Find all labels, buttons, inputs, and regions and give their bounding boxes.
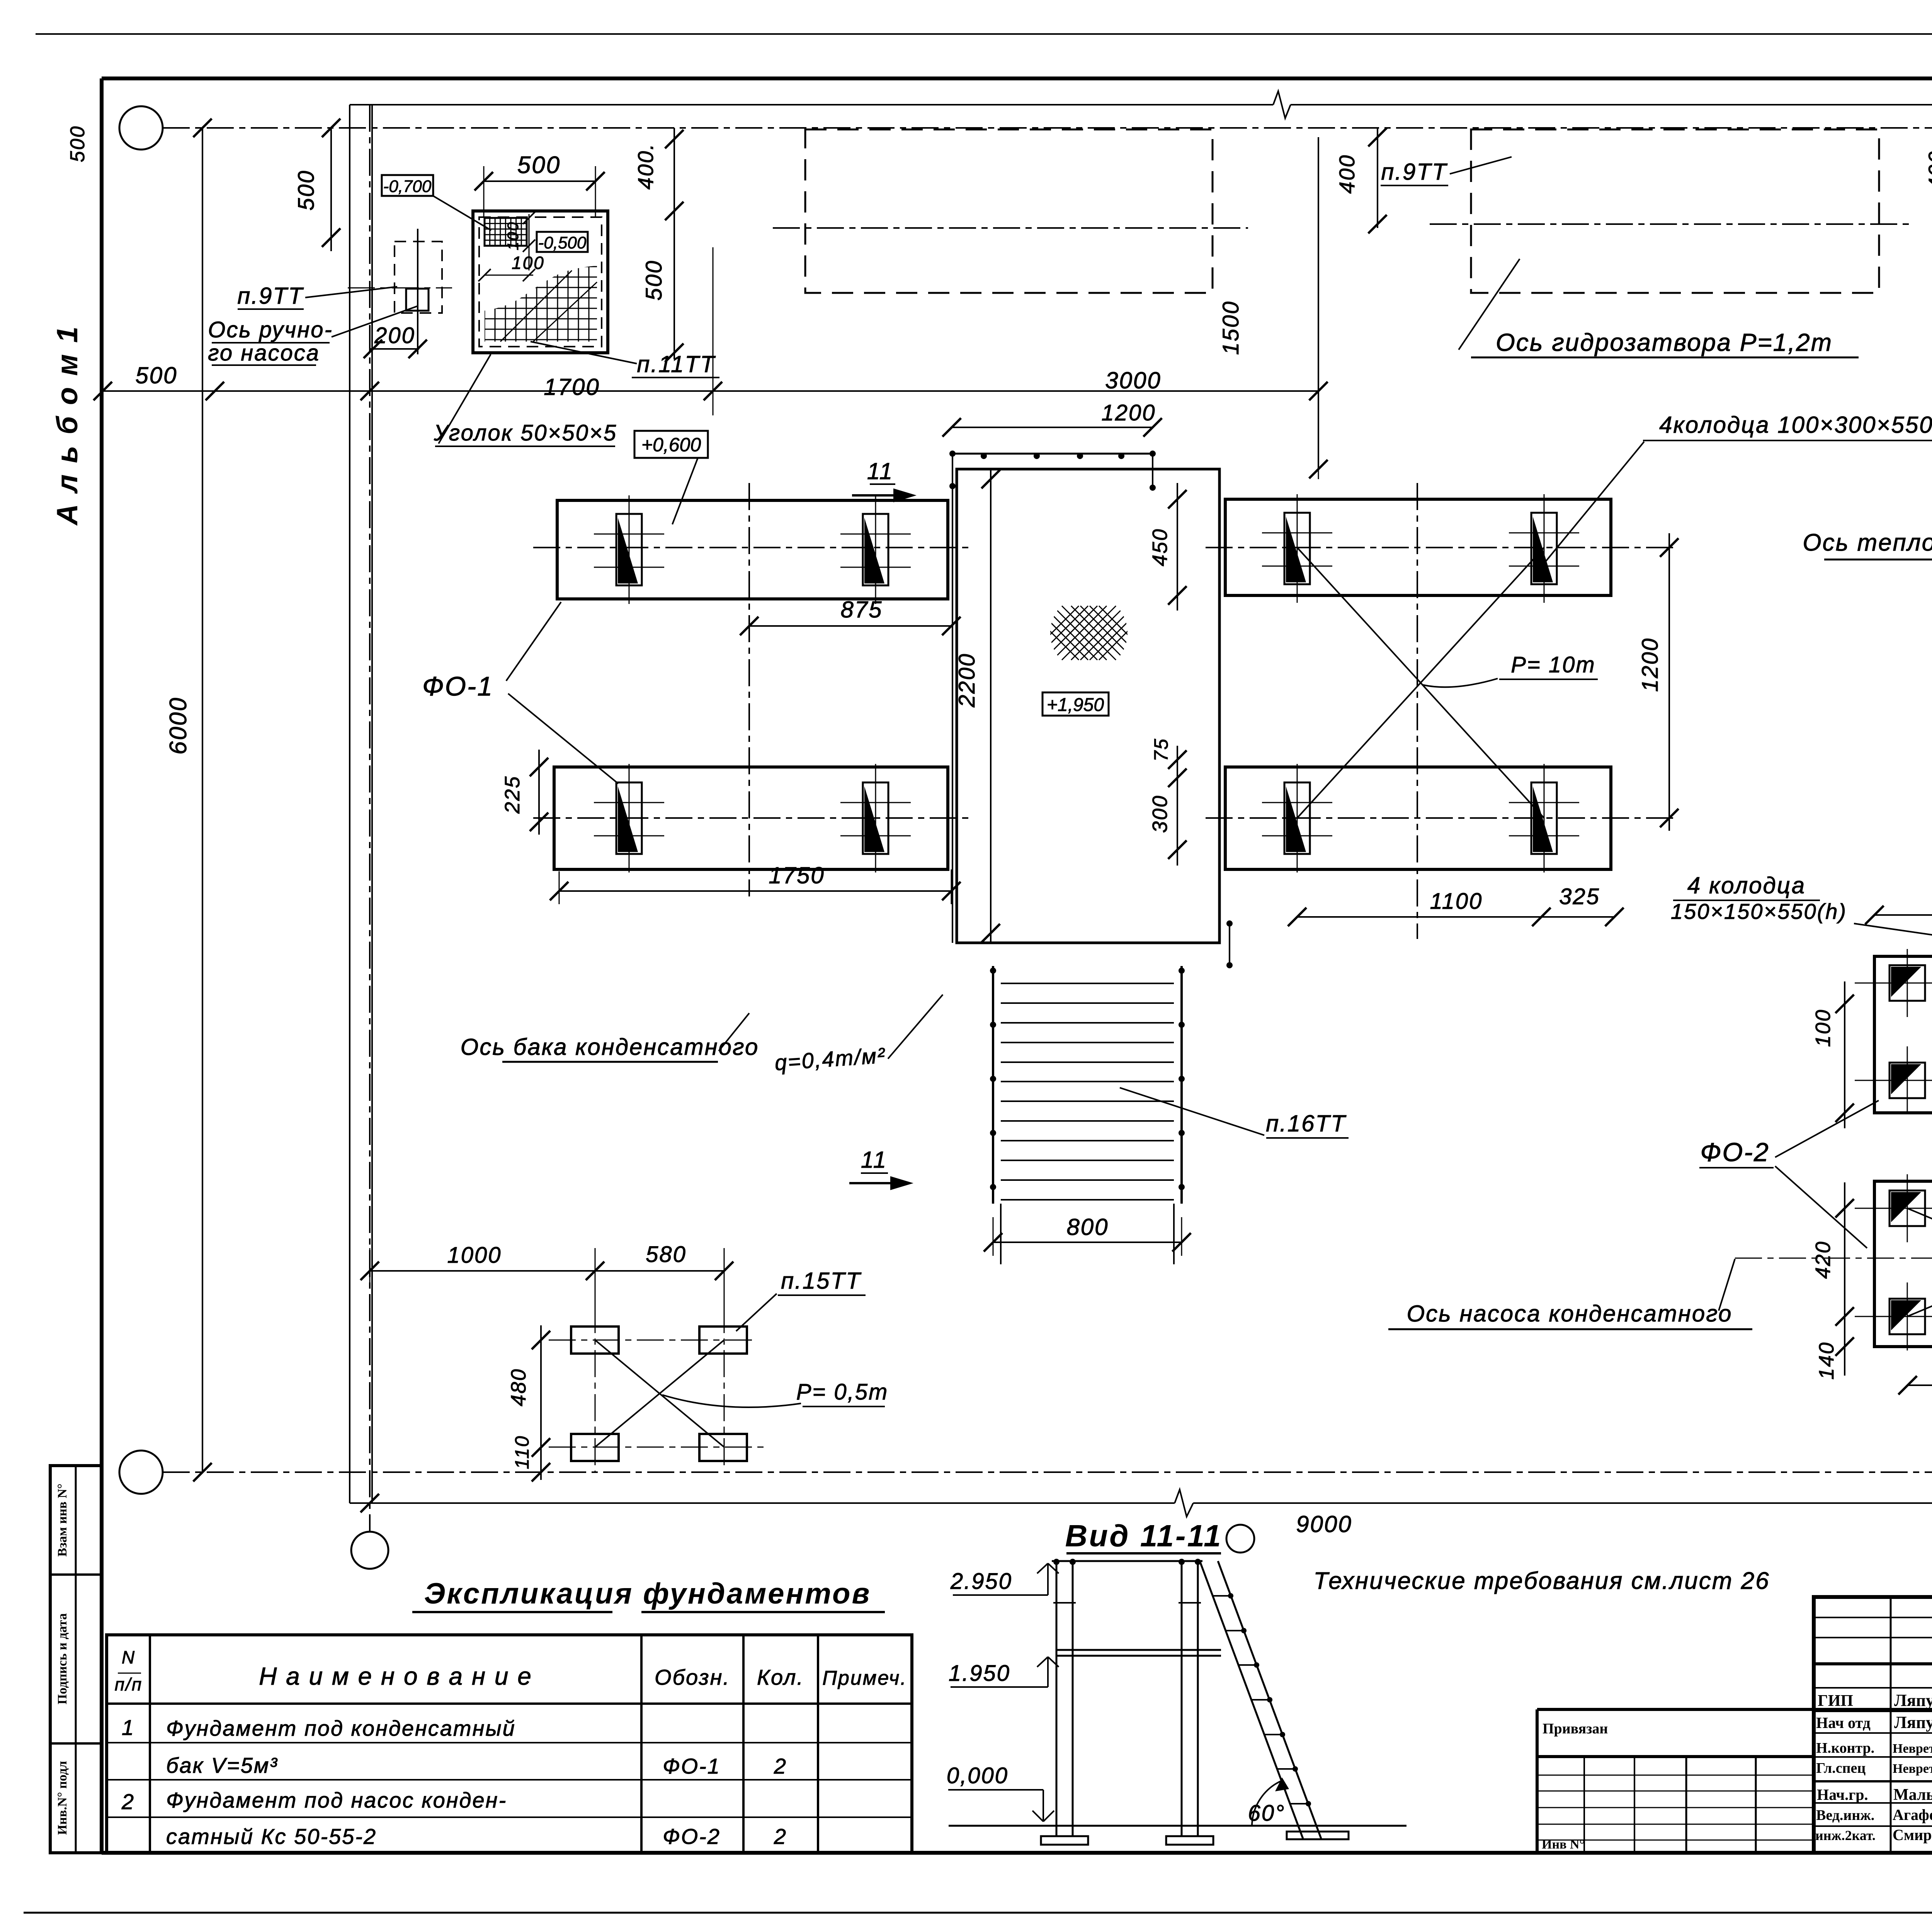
small pad BL (571, 1434, 619, 1461)
svg-text:0,000: 0,000 (947, 1763, 1009, 1788)
outer trim border top line (36, 33, 1932, 35)
svg-text:480: 480 (507, 1368, 530, 1406)
main frame bottom edge (102, 1851, 1932, 1855)
pad 6 (1531, 513, 1557, 584)
svg-text:Кол.: Кол. (757, 1665, 804, 1689)
small pad TL (571, 1327, 619, 1354)
elevation ladder base plate (1287, 1832, 1349, 1839)
elevation platform (1056, 1649, 1221, 1651)
dimension 2200 (990, 469, 992, 943)
dimension 1750 (559, 890, 951, 892)
title block horizontal main (1537, 1708, 1932, 1711)
leader P=10m (1422, 679, 1498, 687)
dimension 6000 (202, 128, 203, 1472)
svg-text:225: 225 (501, 775, 524, 814)
leader п.11ТТ (531, 342, 637, 364)
svg-text:Технические требования см.ли: Технические требования см.лист 26 (1313, 1568, 1770, 1594)
svg-text:500: 500 (641, 260, 667, 301)
leader +0.600 (672, 458, 698, 524)
elevation post ties (1053, 1602, 1076, 1604)
pad 3 (616, 782, 642, 854)
svg-text:Ось ручно-: Ось ручно- (208, 317, 333, 342)
strip axis lower (533, 817, 974, 819)
small cross (595, 1340, 724, 1447)
svg-text:Ляпусов: Ляпусов (1894, 1713, 1932, 1732)
label -0.700 box (382, 175, 433, 196)
foundation FO-2 lower rect (1874, 1181, 1932, 1347)
svg-text:4колодца 100×300×550(h): 4колодца 100×300×550(h) (1659, 412, 1932, 438)
label -0.500 box (537, 232, 588, 252)
strip axis lr (1206, 817, 1673, 819)
dimension 1160-135 (1908, 1384, 1932, 1386)
detail grid square hatched (485, 218, 527, 246)
svg-text:Инв.N° подл: Инв.N° подл (55, 1761, 70, 1835)
svg-text:Р= 10m: Р= 10m (1511, 652, 1596, 677)
svg-text:140: 140 (1815, 1341, 1838, 1379)
elevation right post (1181, 1561, 1183, 1836)
svg-text:4 колодца: 4 колодца (1687, 872, 1806, 898)
svg-text:Примеч.: Примеч. (822, 1667, 907, 1689)
svg-text:1.950: 1.950 (949, 1661, 1010, 1686)
elevation left base plate (1041, 1836, 1088, 1845)
leader Ось бака (719, 1013, 749, 1051)
dimension chain line y1012 (103, 390, 1318, 392)
extension line for chain at x3412 (1318, 367, 1319, 479)
leader P=0.5m (662, 1395, 801, 1407)
svg-text:Н.контр.: Н.контр. (1816, 1740, 1874, 1756)
svg-text:N: N (122, 1647, 136, 1667)
svg-text:Вид 11-11: Вид 11-11 (1065, 1519, 1222, 1553)
svg-text:Ось теплообменника Р=1,7т: Ось теплообменника Р=1,7т (1803, 529, 1932, 556)
equipment dashed rect 2 (1471, 129, 1879, 293)
cross diagonal 1 (1297, 548, 1544, 818)
axis line horizontal top (163, 127, 1932, 129)
svg-text:п.11ТТ: п.11ТТ (637, 351, 716, 377)
svg-text:сатный Кс 50-55-2: сатный Кс 50-55-2 (166, 1824, 377, 1849)
leader 4 колодца top (1546, 442, 1644, 561)
svg-text:Нач.гр.: Нач.гр. (1817, 1786, 1868, 1803)
svg-text:п.9ТТ: п.9ТТ (1381, 159, 1448, 185)
stair stringer left (1000, 1204, 1002, 1264)
FO-2 pad 3 (1889, 1063, 1925, 1098)
building top edge line with break (350, 104, 1273, 105)
dimension 450 right strip (1177, 483, 1178, 611)
dimension 225 (538, 750, 540, 835)
hand pump axis horizontal (348, 287, 452, 289)
svg-text:500: 500 (517, 152, 561, 179)
svg-text:Ось гидрозатвора Р=1,2т: Ось гидрозатвора Р=1,2т (1496, 328, 1833, 356)
dimension 9000 (361, 1494, 379, 1512)
extension 1750 (559, 871, 560, 904)
svg-text:Нач отд: Нач отд (1816, 1714, 1871, 1731)
svg-text:Невретдинова: Невретдинова (1893, 1762, 1932, 1776)
svg-text:Взам инв N°: Взам инв N° (55, 1483, 70, 1556)
svg-text:Обозн.: Обозн. (655, 1665, 730, 1689)
hand pump solid pad (406, 289, 429, 311)
svg-text:150×150×550(h): 150×150×550(h) (1671, 899, 1847, 923)
svg-text:Привязан: Привязан (1543, 1721, 1608, 1737)
dimension 1430-814 (1874, 914, 1932, 916)
dimension 1500 vertical (1318, 137, 1319, 469)
extension 1000-580 (369, 1248, 371, 1287)
equipment dashed rect 1 (805, 129, 1213, 293)
leader FO-1 b (508, 694, 618, 784)
FO-2 upper axes (1855, 983, 1932, 984)
pad 7 (1284, 782, 1310, 854)
foundation strip FO-1 lower-right (1225, 767, 1611, 869)
FO-2 pad 1 (1889, 965, 1925, 1001)
leader Ось гидрозатвора (1459, 259, 1520, 350)
svg-text:500: 500 (135, 362, 177, 388)
svg-text:Ось бака конденсатного: Ось бака конденсатного (461, 1034, 759, 1060)
right group centre axis vertical (1417, 483, 1418, 939)
svg-text:9000: 9000 (1296, 1511, 1352, 1537)
elevation ground line (949, 1825, 1406, 1827)
privyazan grid rows (1537, 1775, 1814, 1776)
pit railing top with posts (952, 453, 1153, 455)
foundation FO-2 upper rect (1874, 956, 1932, 1113)
svg-text:Фундамент под конденсатный: Фундамент под конденсатный (166, 1716, 516, 1740)
privyazan divider (1537, 1755, 1814, 1758)
svg-text:11: 11 (861, 1147, 887, 1173)
svg-text:400: 400 (1924, 150, 1932, 190)
equipment axis 1 (773, 227, 1248, 229)
foundation strip FO-1 lower-left (554, 767, 948, 869)
svg-text:п/п: п/п (115, 1674, 143, 1694)
stair steps (1001, 983, 1174, 984)
dimension 1000-580 (370, 1270, 724, 1272)
leader Уголок (439, 354, 491, 444)
railing hook right (1152, 454, 1153, 488)
dimension 500 top of detail (484, 180, 595, 182)
svg-text:Ляпусов: Ляпусов (1894, 1691, 1932, 1710)
svg-text:Р= 0,5m: Р= 0,5m (796, 1379, 889, 1405)
label +0.600 box (634, 431, 708, 458)
svg-text:60°: 60° (1248, 1801, 1286, 1826)
svg-text:11: 11 (867, 458, 893, 484)
left stamp divider 2 (50, 1742, 102, 1745)
leader п.16ТТ (1120, 1088, 1264, 1135)
svg-text:Экспликация фундаментов: Экспликация фундаментов (424, 1577, 871, 1610)
dimension 420-140 (1844, 1182, 1845, 1376)
svg-text:1: 1 (122, 1715, 135, 1740)
table row lines (107, 1742, 912, 1743)
equipment axis 2 (1430, 223, 1913, 225)
leader п.9ТТ middle (1450, 157, 1512, 174)
hand pump dashed box (395, 241, 442, 313)
svg-text:+0,600: +0,600 (641, 434, 701, 456)
tank centre axis vertical (748, 483, 750, 896)
extension line for 3000 at x1845 (713, 247, 714, 415)
svg-text:п.9ТТ: п.9ТТ (237, 283, 304, 309)
railing hook left (952, 454, 953, 486)
svg-text:200: 200 (374, 323, 415, 348)
svg-text:-0,500: -0,500 (538, 233, 587, 252)
axis bubble top-left (119, 106, 163, 150)
svg-text:бак V=5м³: бак V=5м³ (166, 1753, 278, 1777)
small pad BR (699, 1434, 747, 1461)
small axes (549, 1340, 757, 1341)
svg-text:ФО-1: ФО-1 (663, 1754, 721, 1778)
svg-text:800: 800 (1066, 1214, 1109, 1240)
main frame left edge (100, 78, 104, 1853)
svg-text:420: 420 (1811, 1240, 1835, 1279)
svg-text:1700: 1700 (544, 374, 600, 400)
pad 8 (1531, 782, 1557, 854)
svg-text:п.15ТТ: п.15ТТ (781, 1268, 862, 1294)
svg-text:п.16ТТ: п.16ТТ (1266, 1111, 1347, 1136)
dimension 875 (749, 625, 951, 627)
small pad TR (699, 1327, 747, 1354)
leader Ось ручного насоса (332, 306, 418, 337)
left stamp column box (50, 1466, 102, 1853)
leader FO-2 a (1775, 1100, 1879, 1157)
svg-text:Фундамент под насос конден-: Фундамент под насос конден- (166, 1788, 507, 1812)
FO-2 lower cross (1907, 1208, 1932, 1316)
svg-text:Подпись и дата: Подпись и дата (55, 1613, 70, 1704)
elevation left post (1056, 1561, 1058, 1836)
extension lines 500 top (483, 166, 485, 216)
detail box outer (473, 211, 608, 353)
label +1.950 box (1043, 692, 1109, 716)
svg-text:400: 400 (1335, 154, 1359, 194)
outer trim border bottom line (24, 1912, 1932, 1914)
detail box inner dashed (479, 217, 602, 347)
svg-text:2: 2 (774, 1824, 787, 1849)
pad 5 (1284, 513, 1310, 584)
svg-text:А л ь б о м 1: А л ь б о м 1 (51, 325, 84, 526)
foundation strip FO-1 upper-left (557, 500, 948, 599)
stair left rail (992, 966, 994, 1204)
dimension 200 line (370, 348, 419, 350)
dimension 1200 right (1668, 533, 1670, 831)
pad 4 (863, 782, 888, 854)
svg-text:Н а и м е н о в а н и е: Н а и м е н о в а н и е (259, 1662, 532, 1690)
svg-text:-0,700: -0,700 (383, 177, 432, 196)
svg-text:1200: 1200 (1638, 637, 1663, 692)
table header line (107, 1702, 912, 1705)
svg-text:6000: 6000 (165, 697, 192, 755)
svg-text:ФО-1: ФО-1 (422, 671, 493, 701)
stair right rail (1180, 966, 1183, 1204)
axis bubble bottom-left (119, 1451, 163, 1494)
stair rail posts dots (990, 968, 996, 974)
svg-text:Вед.инж.: Вед.инж. (1816, 1807, 1874, 1823)
svg-text:Инв N°: Инв N° (1542, 1837, 1585, 1852)
svg-text:500: 500 (66, 125, 89, 162)
svg-text:2: 2 (774, 1754, 787, 1778)
cross diagonal 2 (1297, 548, 1544, 818)
dimension 800 (993, 1242, 1182, 1243)
hand pump axis vertical (417, 229, 418, 354)
table verticals (149, 1635, 151, 1853)
concrete hatch patch (1025, 606, 1153, 660)
building left wall double line (349, 105, 350, 1503)
dimension 1200 pit (952, 427, 1153, 428)
privyazan grid verticals (1685, 1757, 1687, 1853)
sig block verticals (1890, 1597, 1892, 1853)
strip axis ur (1206, 547, 1673, 548)
extension 800 (993, 1217, 994, 1256)
svg-text:75: 75 (1150, 738, 1172, 762)
svg-text:1100: 1100 (1430, 889, 1483, 914)
svg-text:580: 580 (646, 1242, 687, 1267)
svg-text:2.950: 2.950 (950, 1569, 1012, 1594)
leader FO-1 a (506, 602, 561, 681)
main frame top edge (102, 77, 1932, 80)
svg-text:Агафонова: Агафонова (1893, 1806, 1932, 1823)
dimension 500 vertical left of detail (330, 128, 332, 251)
strip axis (533, 547, 974, 548)
title block horizontal under doc number (1814, 1662, 1932, 1665)
svg-text:Гл.спец: Гл.спец (1816, 1760, 1866, 1776)
svg-text:1500: 1500 (1218, 300, 1243, 355)
svg-text:325: 325 (1559, 884, 1600, 909)
svg-text:400.: 400. (633, 143, 658, 190)
svg-text:100: 100 (512, 253, 545, 273)
pit outline (957, 469, 1219, 943)
table outer (107, 1635, 912, 1853)
svg-text:ФО-2: ФО-2 (663, 1824, 721, 1849)
left stamp divider 1 (50, 1573, 102, 1576)
FO-2 lower axes (1855, 1208, 1932, 1209)
dimension chain 400/500 right of detail (673, 128, 675, 359)
leader Ось насоса (1719, 1259, 1735, 1311)
leader п.15ТТ (736, 1294, 777, 1331)
axis bubble bottom vertical axis (351, 1532, 388, 1569)
axis line horizontal bottom (163, 1471, 1932, 1473)
svg-text:100: 100 (505, 221, 522, 250)
tick (94, 382, 112, 400)
leader п.9ТТ left (305, 287, 397, 298)
leader -0.700 (433, 196, 491, 230)
dimension 1100-325 (1297, 916, 1614, 918)
leader 4 колодца low (1854, 923, 1932, 966)
svg-text:1000: 1000 (447, 1243, 502, 1268)
dimension 400 between rects (1377, 128, 1378, 228)
svg-text:500: 500 (294, 170, 319, 211)
foundation strip FO-1 upper-right (1225, 499, 1611, 595)
dimension 100 fo2 (1844, 981, 1845, 1128)
detail diagonal (500, 270, 572, 342)
svg-text:1750: 1750 (769, 862, 825, 888)
pit left double edge (952, 454, 953, 943)
elevation inclined ladder (1200, 1561, 1303, 1838)
sig block rows (1814, 1617, 1932, 1618)
title block outer (1814, 1597, 1932, 1853)
axis line vertical left (369, 105, 371, 1532)
svg-text:3000: 3000 (1105, 367, 1161, 393)
svg-text:инж.2кат.: инж.2кат. (1815, 1828, 1876, 1843)
svg-text:Уголок 50×50×5: Уголок 50×50×5 (434, 420, 617, 446)
dimension 480-110 (540, 1325, 542, 1480)
svg-text:Смирнова: Смирнова (1893, 1826, 1932, 1844)
left stamp inner vertical (75, 1466, 77, 1853)
stair head railing hook right (1229, 923, 1230, 965)
building bottom edge line with break (350, 1502, 1175, 1504)
leader FO-2 b (1775, 1166, 1867, 1248)
svg-text:2200: 2200 (954, 653, 980, 707)
elevation right base plate (1166, 1836, 1213, 1845)
svg-text:450: 450 (1148, 528, 1172, 566)
elevation top rail (1052, 1560, 1202, 1562)
FO-2 pad 7 (1889, 1299, 1925, 1334)
stair stringer right (1173, 1204, 1175, 1264)
dimension 75-300 (1177, 746, 1178, 866)
svg-text:2: 2 (121, 1789, 135, 1814)
leader q (888, 995, 943, 1059)
elevation angle arc 60 (1252, 1781, 1282, 1826)
svg-text:Невретдинова: Невретдинова (1893, 1742, 1932, 1756)
pad 2 of strip (863, 514, 888, 585)
svg-text:875: 875 (840, 597, 883, 622)
svg-text:110: 110 (511, 1435, 533, 1469)
svg-text:+1,950: +1,950 (1047, 695, 1104, 715)
privyazan block top (1536, 1709, 1539, 1853)
svg-text:Малыгина: Малыгина (1893, 1786, 1932, 1804)
svg-text:ФО-2: ФО-2 (1700, 1138, 1769, 1167)
view title circle (1226, 1525, 1254, 1553)
svg-text:1200: 1200 (1101, 400, 1156, 425)
svg-text:го насоса: го насоса (208, 340, 320, 366)
FO-2 pad 5 (1889, 1190, 1925, 1226)
pad 1 of strip (616, 514, 642, 585)
svg-text:300: 300 (1148, 794, 1172, 833)
svg-text:ГИП: ГИП (1818, 1692, 1853, 1710)
svg-text:Ось насоса конденсатного: Ось насоса конденсатного (1407, 1301, 1733, 1327)
svg-text:100: 100 (1811, 1009, 1835, 1047)
